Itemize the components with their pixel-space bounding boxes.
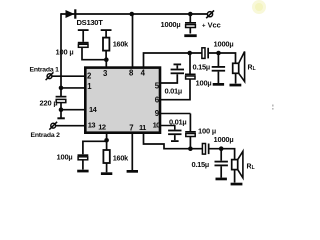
- svg-text:3: 3: [103, 69, 108, 78]
- node: pin 12 junction: [104, 138, 109, 143]
- ground below speaker ch1: [230, 84, 242, 87]
- jack Entrada 2: [49, 122, 57, 130]
- svg-text:160k: 160k: [113, 153, 129, 162]
- svg-text:1000μ: 1000μ: [214, 135, 234, 144]
- capacitor C1 100u (pin3 bias): [78, 29, 107, 60]
- wire: pin 4 up and right to output rail 1: [144, 53, 190, 67]
- svg-text:100μ: 100μ: [196, 79, 212, 88]
- resistor R2 160k: [103, 140, 109, 172]
- ground below 0.15u ch2: [216, 178, 227, 181]
- svg-text:160k: 160k: [113, 39, 129, 48]
- svg-text:0.15μ: 0.15μ: [192, 160, 209, 169]
- node: pin3 junction: [104, 57, 109, 62]
- svg-text:100 μ: 100 μ: [56, 48, 74, 57]
- svg-text:1000μ: 1000μ: [214, 40, 234, 49]
- svg-text:1: 1: [87, 82, 92, 91]
- svg-text:RL: RL: [248, 65, 256, 73]
- svg-text:0.01μ: 0.01μ: [165, 86, 182, 95]
- node: pin14 junction: [59, 107, 64, 112]
- node B ch2: [219, 146, 224, 151]
- speaker RL ch2: [232, 151, 243, 182]
- wire: pin 9 to bootstrap ch2: [161, 113, 190, 115]
- wire: output rail ch2: [190, 149, 234, 160]
- ground below supply cap: [184, 34, 196, 37]
- wire: pin 12 down: [106, 134, 108, 140]
- wire: output rail ch1: [190, 53, 236, 63]
- wire: pin 1: [61, 87, 84, 89]
- wire: pin 7 down: [131, 134, 133, 170]
- svg-text:Entrada 1: Entrada 1: [30, 67, 60, 74]
- svg-text:11: 11: [139, 123, 146, 132]
- svg-text:0.01μ: 0.01μ: [169, 118, 186, 127]
- wire: pin 11 to output rail ch2: [144, 134, 190, 149]
- svg-text:9: 9: [155, 109, 160, 118]
- svg-text:RL: RL: [247, 164, 255, 172]
- wire: entrada1 to pin 2: [52, 75, 84, 77]
- capacitor 100u bootstrap ch1: [161, 53, 196, 100]
- node: pin1 junction on left line: [59, 86, 64, 91]
- svg-text:DS130T: DS130T: [77, 18, 104, 27]
- svg-text:8: 8: [129, 68, 134, 77]
- wire: entrada2 to pin 13: [55, 125, 84, 127]
- ground below 160k ch2: [101, 172, 112, 175]
- capacitor 0.15u ch2: [215, 149, 228, 178]
- terminal +Vcc jack: [206, 10, 214, 18]
- wire: pin 14: [61, 109, 84, 111]
- capacitor 100u bootstrap ch2: [185, 114, 196, 149]
- svg-text:6: 6: [155, 95, 160, 104]
- svg-text:220 μ: 220 μ: [40, 99, 58, 108]
- svg-text:2: 2: [87, 72, 92, 81]
- svg-text:12: 12: [98, 123, 106, 132]
- ground below pin 7: [127, 170, 138, 173]
- IC U1 body: [85, 68, 160, 133]
- capacitor C-supply 1000u: [185, 14, 196, 34]
- svg-text:5: 5: [155, 81, 160, 90]
- svg-text:1000μ: 1000μ: [161, 20, 181, 29]
- svg-text:4: 4: [141, 68, 146, 77]
- wire: top supply rail: [61, 13, 207, 15]
- svg-text:Entrada 2: Entrada 2: [31, 132, 61, 139]
- gray speck artifact: [272, 105, 274, 110]
- capacitor 0.15u ch1: [212, 53, 225, 83]
- diode D1 DS130T: [66, 9, 77, 18]
- node A ch2: [188, 146, 193, 151]
- wire: node to pin 3: [105, 60, 107, 67]
- jack Entrada 1: [46, 72, 54, 80]
- wire: left vertical line: [60, 13, 62, 110]
- svg-text:10: 10: [153, 121, 161, 130]
- node: rail junction to 1000u supply cap: [188, 12, 193, 17]
- node A ch1: [187, 51, 192, 56]
- capacitor 0.01u ch2 (pin 10): [161, 126, 182, 143]
- svg-text:7: 7: [129, 123, 133, 132]
- svg-text:13: 13: [88, 120, 96, 129]
- node: rail junction to pin 8: [130, 12, 135, 17]
- capacitor 0.01u ch1 (pin 5): [161, 64, 184, 84]
- svg-text:+ Vcc: + Vcc: [202, 20, 221, 29]
- ground below 100u pin12: [77, 170, 88, 173]
- wire: pin 8 from rail: [132, 14, 134, 67]
- capacitor C2 220u (inline left): [56, 96, 67, 103]
- ground below speaker ch2: [231, 183, 243, 186]
- svg-text:100μ: 100μ: [57, 153, 73, 162]
- speaker RL ch1: [233, 52, 245, 84]
- capacitor C 100u (pin12): [78, 141, 107, 169]
- svg-text:0.15μ: 0.15μ: [193, 62, 210, 71]
- resistor R1 160k: [101, 29, 112, 60]
- node B ch1: [216, 51, 221, 56]
- yellow scan artifact: [252, 0, 266, 14]
- ground below 0.15u ch1: [213, 83, 224, 86]
- capacitor 1000u series ch1: [202, 48, 209, 59]
- terminal stub below pin14 node: [57, 110, 64, 120]
- capacitor 1000u series ch2: [202, 144, 209, 155]
